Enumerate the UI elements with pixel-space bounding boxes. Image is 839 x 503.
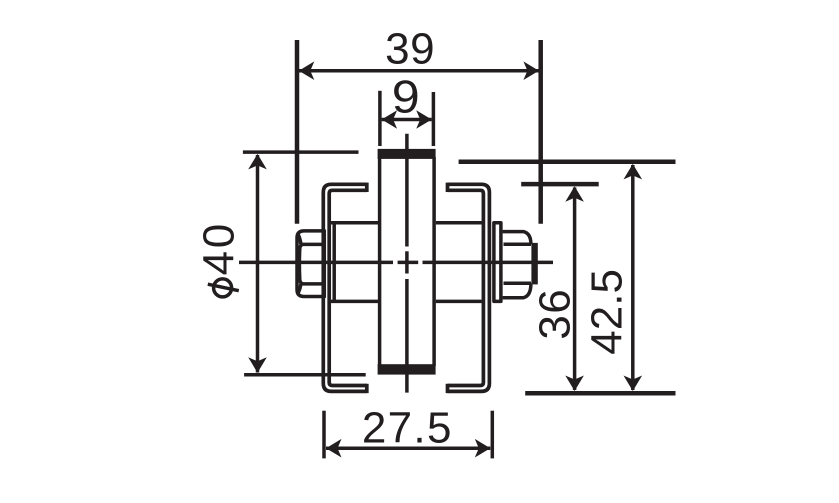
bracket right bottom lip end cap xyxy=(446,384,450,393)
dim 39 left extension line xyxy=(295,40,300,224)
vertical centerline long dash bottom xyxy=(405,279,409,393)
washer / bushing end on right xyxy=(494,223,501,302)
dim phi40 bottom arrowhead xyxy=(248,357,267,373)
dim 9 dimension line xyxy=(382,118,432,122)
bushing left end face xyxy=(332,222,336,303)
dim phi40 bottom extension line xyxy=(244,373,366,377)
phi symbol slash of dim text phi40 xyxy=(208,284,239,291)
hub sleeve top line left xyxy=(331,221,378,225)
bracket right wall outer contour xyxy=(448,184,490,391)
dim 39 right extension line xyxy=(538,40,543,224)
horizontal centerline long dash right xyxy=(423,261,554,265)
dim 9 left arrowhead xyxy=(382,110,398,129)
bolt head right face xyxy=(323,230,327,298)
bracket right top lip end cap xyxy=(446,183,450,192)
dim 27.5 right extension line xyxy=(491,411,495,459)
vertical centerline long dash top xyxy=(405,134,409,247)
nut upper facet line xyxy=(504,243,532,247)
bracket left wall inner contour xyxy=(329,190,367,385)
dim phi40 top arrowhead xyxy=(248,154,267,170)
dim 36 top extension line xyxy=(521,182,599,187)
nut lower facet line xyxy=(504,282,532,286)
bolt thread tip xyxy=(531,243,537,285)
svg-text:42.5: 42.5 xyxy=(582,269,631,355)
dim 39 dimension line xyxy=(299,69,539,73)
dim phi40 top extension line xyxy=(243,150,359,154)
dim phi40 dimension line xyxy=(256,155,260,373)
dim 9 right arrowhead xyxy=(416,110,432,129)
dim 39 right arrowhead xyxy=(523,61,539,80)
dim 36 top arrowhead xyxy=(565,186,584,202)
bolt head top facet chamfer arc xyxy=(298,235,301,244)
vertical centerline short center dash xyxy=(405,251,409,273)
dim 9 left extension line xyxy=(378,91,382,146)
wheel right side wall xyxy=(432,157,436,366)
wheel bottom tread cap xyxy=(378,364,436,374)
nut bottom face xyxy=(503,283,531,297)
svg-text:36: 36 xyxy=(530,288,579,340)
dim 27.5 left arrowhead xyxy=(326,439,342,458)
phi symbol circle of dim text phi40 xyxy=(214,279,232,297)
dim 42.5 top arrowhead xyxy=(624,164,643,180)
dim 36 bottom arrowhead xyxy=(565,376,584,392)
dim 42.5 top extension line xyxy=(459,159,676,164)
hub sleeve top line right xyxy=(436,221,482,225)
hub sleeve bottom line left xyxy=(331,300,378,304)
horizontal centerline long dash left xyxy=(239,261,393,265)
svg-text:9: 9 xyxy=(392,70,420,122)
dim 42.5 bottom arrowhead xyxy=(624,376,643,392)
wheel left side wall xyxy=(378,157,382,366)
dim 36 and 42.5 shared bottom extension line xyxy=(525,391,675,396)
bolt head outline xyxy=(297,231,324,297)
bolt head bottom facet chamfer arc xyxy=(298,284,301,293)
svg-text:27.5: 27.5 xyxy=(362,404,453,453)
svg-text:39: 39 xyxy=(385,24,435,73)
nut top face xyxy=(503,232,531,245)
wheel top tread cap xyxy=(378,149,436,159)
dim 36 dimension line xyxy=(573,188,577,391)
dim 39 left arrowhead xyxy=(299,61,315,80)
svg-text:40: 40 xyxy=(195,221,244,275)
bracket left bottom lip end cap xyxy=(365,384,369,393)
bracket left top lip end cap xyxy=(365,183,369,192)
bolt head facet lines with middle chamfer arc xyxy=(299,244,326,284)
dim 27.5 dimension line xyxy=(326,446,490,450)
dim 27.5 left extension line xyxy=(322,411,326,459)
bracket right wall inner contour xyxy=(448,190,484,385)
horizontal centerline short center dash xyxy=(398,261,419,265)
dim 42.5 dimension line xyxy=(631,165,635,390)
dim 27.5 right arrowhead xyxy=(475,439,491,458)
dim 9 right extension line xyxy=(432,92,436,146)
hub sleeve bottom line right xyxy=(436,300,482,304)
bracket left wall outer contour xyxy=(323,184,367,391)
